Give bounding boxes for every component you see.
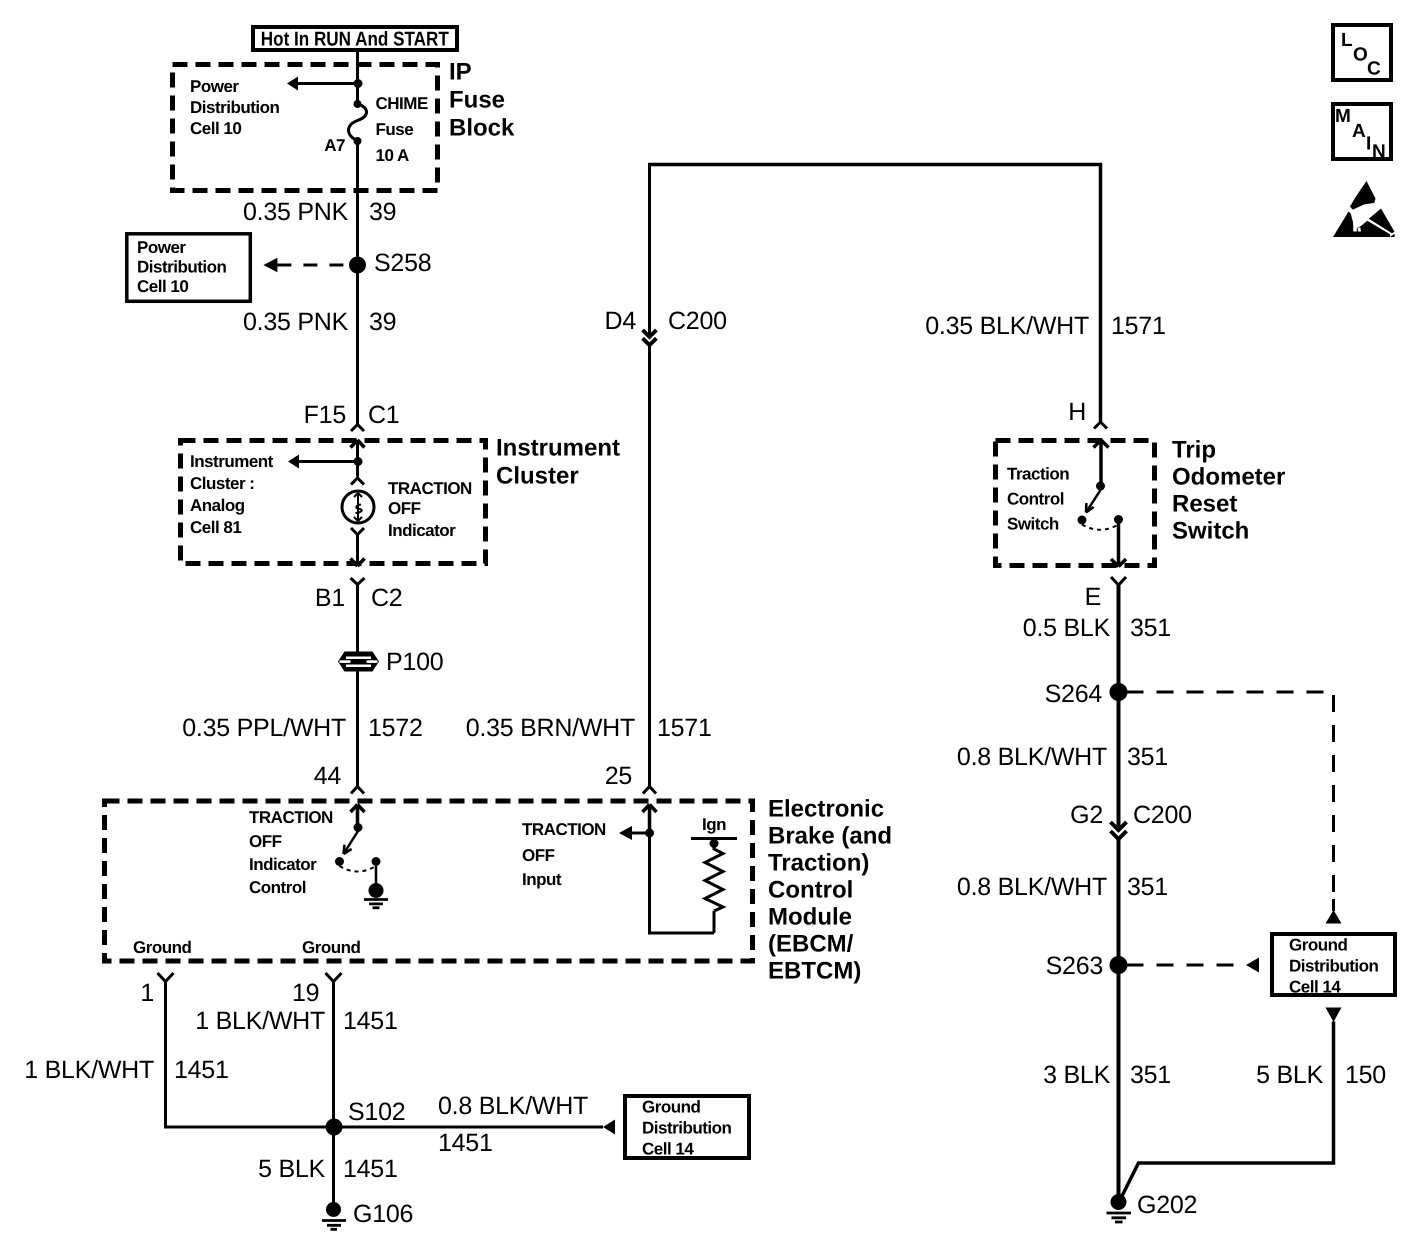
svg-text:Distribution: Distribution <box>137 258 226 277</box>
svg-text:S258: S258 <box>374 249 431 277</box>
svg-text:S264: S264 <box>1045 680 1103 708</box>
svg-text:Power: Power <box>190 77 239 96</box>
svg-text:Distribution: Distribution <box>1289 957 1378 976</box>
svg-text:Instrument: Instrument <box>496 435 620 462</box>
svg-text:Module: Module <box>768 904 852 931</box>
svg-text:Ground: Ground <box>302 938 360 957</box>
svg-text:TRACTION: TRACTION <box>522 820 606 839</box>
svg-text:Cell 14: Cell 14 <box>1289 978 1341 997</box>
svg-text:Cluster: Cluster <box>496 463 579 490</box>
svg-text:Control: Control <box>249 878 306 897</box>
svg-text:Cell 14: Cell 14 <box>642 1140 694 1159</box>
svg-text:Distribution: Distribution <box>190 98 279 117</box>
svg-text:G202: G202 <box>1137 1191 1197 1219</box>
svg-text:C2: C2 <box>371 584 402 612</box>
svg-text:C200: C200 <box>668 307 727 335</box>
svg-text:TRACTION: TRACTION <box>249 808 333 827</box>
svg-text:0.35 PNK: 0.35 PNK <box>243 198 349 226</box>
svg-text:S102: S102 <box>348 1098 405 1126</box>
svg-text:Fuse: Fuse <box>376 120 414 139</box>
svg-text:1451: 1451 <box>343 1155 398 1183</box>
svg-text:0.8 BLK/WHT: 0.8 BLK/WHT <box>438 1092 588 1120</box>
svg-text:Switch: Switch <box>1007 515 1059 534</box>
svg-text:Odometer: Odometer <box>1172 464 1285 491</box>
svg-text:0.8 BLK/WHT: 0.8 BLK/WHT <box>957 743 1107 771</box>
svg-text:Traction: Traction <box>1007 465 1069 484</box>
svg-text:Trip: Trip <box>1172 437 1216 464</box>
svg-text:Ign: Ign <box>702 815 726 834</box>
svg-text:Cluster :: Cluster : <box>190 474 254 493</box>
svg-text:44: 44 <box>314 762 342 790</box>
svg-text:C1: C1 <box>368 401 399 429</box>
svg-text:351: 351 <box>1127 743 1168 771</box>
svg-text:0.35 BRN/WHT: 0.35 BRN/WHT <box>466 714 635 742</box>
svg-text:A: A <box>1352 121 1366 142</box>
svg-text:Analog: Analog <box>190 496 245 515</box>
svg-text:19: 19 <box>292 979 319 1007</box>
svg-text:Instrument: Instrument <box>190 452 274 471</box>
svg-text:1571: 1571 <box>1111 312 1166 340</box>
svg-text:CHIME: CHIME <box>376 94 428 113</box>
svg-text:5 BLK: 5 BLK <box>1256 1061 1323 1089</box>
svg-text:Control: Control <box>768 877 853 904</box>
svg-text:OFF: OFF <box>388 499 421 518</box>
svg-text:D4: D4 <box>605 307 637 335</box>
svg-text:B1: B1 <box>315 584 345 612</box>
svg-text:1 BLK/WHT: 1 BLK/WHT <box>24 1056 154 1084</box>
svg-text:0.8 BLK/WHT: 0.8 BLK/WHT <box>957 873 1107 901</box>
svg-text:EBTCM): EBTCM) <box>768 958 861 985</box>
svg-text:Hot In RUN And START: Hot In RUN And START <box>261 29 449 51</box>
svg-text:351: 351 <box>1130 614 1171 642</box>
svg-text:0.35 BLK/WHT: 0.35 BLK/WHT <box>925 312 1089 340</box>
svg-text:Block: Block <box>449 115 515 142</box>
svg-text:O: O <box>1353 45 1368 66</box>
svg-text:Input: Input <box>522 870 562 889</box>
svg-text:Ground: Ground <box>642 1098 700 1117</box>
svg-text:351: 351 <box>1130 1061 1171 1089</box>
svg-text:0.35 PPL/WHT: 0.35 PPL/WHT <box>182 714 346 742</box>
svg-text:0.5 BLK: 0.5 BLK <box>1023 614 1111 642</box>
svg-text:OFF: OFF <box>249 832 282 851</box>
svg-text:Fuse: Fuse <box>449 87 505 114</box>
svg-text:(EBCM/: (EBCM/ <box>768 931 854 958</box>
svg-text:Ground: Ground <box>133 938 191 957</box>
svg-text:Indicator: Indicator <box>388 521 456 540</box>
svg-text:Cell 81: Cell 81 <box>190 518 241 537</box>
svg-text:G106: G106 <box>353 1200 413 1228</box>
svg-text:I: I <box>1366 134 1371 155</box>
svg-text:N: N <box>1372 142 1386 163</box>
svg-text:G2: G2 <box>1070 801 1103 829</box>
svg-text:1 BLK/WHT: 1 BLK/WHT <box>195 1007 325 1035</box>
svg-text:25: 25 <box>605 762 632 790</box>
svg-text:Traction): Traction) <box>768 850 869 877</box>
svg-text:Cell 10: Cell 10 <box>190 119 241 138</box>
svg-text:39: 39 <box>369 308 396 336</box>
svg-text:P100: P100 <box>386 648 443 676</box>
svg-text:Distribution: Distribution <box>642 1119 731 1138</box>
svg-text:C200: C200 <box>1133 801 1192 829</box>
svg-text:Electronic: Electronic <box>768 796 884 823</box>
svg-text:Switch: Switch <box>1172 518 1249 545</box>
svg-text:0.35 PNK: 0.35 PNK <box>243 308 349 336</box>
svg-text:A7: A7 <box>324 136 345 155</box>
svg-text:L: L <box>1341 30 1353 51</box>
svg-text:TRACTION: TRACTION <box>388 479 472 498</box>
svg-text:IP: IP <box>449 59 472 86</box>
svg-text:351: 351 <box>1127 873 1168 901</box>
svg-text:Control: Control <box>1007 490 1064 509</box>
svg-text:3 BLK: 3 BLK <box>1043 1061 1110 1089</box>
svg-text:1: 1 <box>140 979 154 1007</box>
svg-text:E: E <box>1085 583 1101 611</box>
svg-text:Power: Power <box>137 238 186 257</box>
svg-text:C: C <box>1367 59 1381 80</box>
svg-text:S263: S263 <box>1046 952 1103 980</box>
svg-text:1571: 1571 <box>657 714 712 742</box>
svg-text:F15: F15 <box>304 401 346 429</box>
svg-text:OFF: OFF <box>522 846 555 865</box>
svg-text:150: 150 <box>1345 1061 1386 1089</box>
svg-text:5 BLK: 5 BLK <box>258 1155 325 1183</box>
svg-text:39: 39 <box>369 198 396 226</box>
svg-text:Indicator: Indicator <box>249 855 317 874</box>
svg-text:Ground: Ground <box>1289 936 1347 955</box>
svg-text:1451: 1451 <box>438 1129 493 1157</box>
svg-text:1451: 1451 <box>343 1007 398 1035</box>
svg-text:Cell 10: Cell 10 <box>137 277 188 296</box>
svg-text:10 A: 10 A <box>376 146 410 165</box>
svg-text:1572: 1572 <box>368 714 423 742</box>
svg-text:H: H <box>1068 398 1086 426</box>
svg-text:Brake (and: Brake (and <box>768 823 892 850</box>
svg-text:M: M <box>1335 106 1351 127</box>
svg-text:1451: 1451 <box>174 1056 229 1084</box>
svg-text:Reset: Reset <box>1172 491 1237 518</box>
